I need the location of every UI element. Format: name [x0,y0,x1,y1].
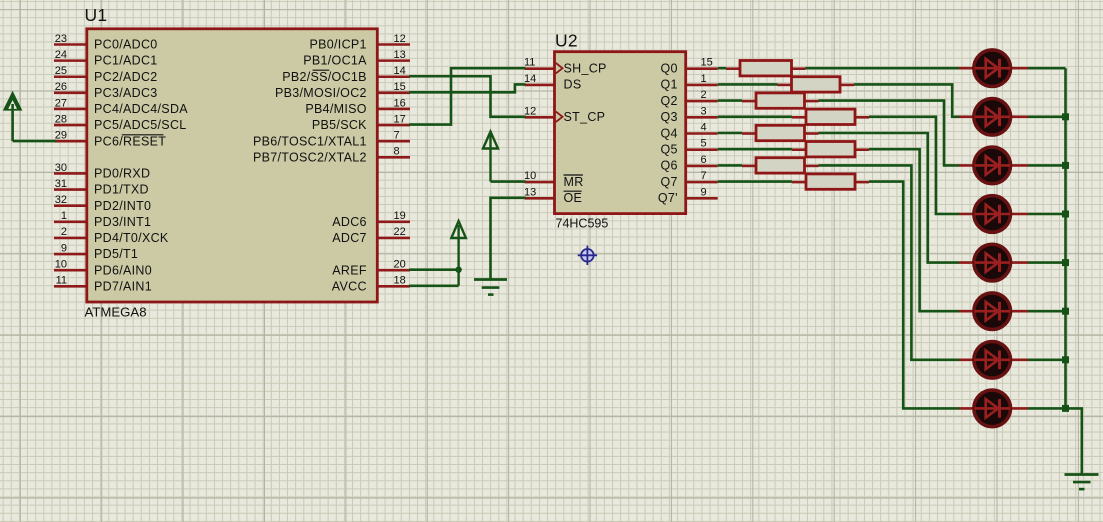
svg-text:19: 19 [394,210,406,222]
svg-text:6: 6 [701,154,707,166]
svg-text:7: 7 [394,130,400,142]
IC U2 74HC595 body [555,52,686,214]
resistor R3 [742,93,819,108]
wire U2 pin 13 OE to ground [491,198,526,279]
resistor R5 [742,125,819,140]
U1 pin 17 (PB5/SCK) [312,113,410,132]
wire LED D3 to cathode bus [1028,164,1066,167]
svg-text:18: 18 [394,275,406,287]
svg-text:Q6: Q6 [661,159,678,173]
U1 pin 19 (ADC6) [332,210,410,229]
svg-text:PC4/ADC4/SDA: PC4/ADC4/SDA [94,102,188,116]
resistor R1 [726,61,806,76]
svg-text:ATMEGA8: ATMEGA8 [85,305,147,320]
wire R5 to LED D5 [819,133,960,263]
U1 pin 18 (AVCC) [332,275,410,294]
svg-text:MR: MR [564,175,584,189]
U2 OE overline [564,190,582,192]
svg-text:U1: U1 [85,5,108,25]
U1 pin 11 (PD7/AIN1) [54,275,152,294]
U1 pin 26 (PC3/ADC3) [54,81,158,100]
svg-text:PB5/SCK: PB5/SCK [312,118,367,132]
U2 pin 2 (Q2) [661,89,718,108]
svg-text:15: 15 [701,57,713,69]
junction AREF/AVCC [455,266,461,272]
svg-text:2: 2 [701,89,707,101]
U1 pin 20 (AREF) [332,258,410,277]
svg-text:5: 5 [701,138,707,150]
wire U1 pin 18 AVCC to VCC [409,284,459,287]
svg-text:PC5/ADC5/SCL: PC5/ADC5/SCL [94,118,187,132]
svg-text:12: 12 [524,105,536,117]
svg-text:AVCC: AVCC [332,279,367,293]
LED D1 [959,50,1028,87]
wire R6 to LED D6 [869,149,959,311]
svg-text:Q4: Q4 [661,126,678,140]
U1 pin 29 (PC6/RESET) [54,130,166,149]
U2 pin 14 (DS) [524,73,581,92]
svg-text:PD6/AIN0: PD6/AIN0 [94,263,152,277]
svg-text:PD7/AIN1: PD7/AIN1 [94,279,152,293]
U2 pin 12 (ST_CP) [524,105,605,124]
svg-text:13: 13 [524,186,536,198]
junction bus LED D2 [1062,113,1069,120]
U1 RESET overline [122,134,164,136]
wire LED D8 to cathode bus [1028,407,1066,410]
wire LED D1 to cathode bus [1028,67,1066,70]
svg-text:9: 9 [61,242,67,254]
svg-text:11: 11 [56,275,67,287]
U2 SH_CP clock arrow [556,63,563,73]
U1 pin 7 (PB6/TOSC1/XTAL1) [253,130,410,149]
U1 pin 16 (PB4/MISO) [305,97,410,116]
wire LED D2 to cathode bus [1028,116,1066,119]
svg-text:20: 20 [394,258,406,270]
junction bus LED D7 [1062,356,1069,363]
U1 pin 1 (PD3/INT1) [54,210,151,229]
U1 SS overline [313,69,330,71]
U2 pin 3 (Q3) [661,105,718,124]
svg-text:PB3/MOSI/OC2: PB3/MOSI/OC2 [275,86,367,100]
junction bus LED D4 [1062,211,1069,218]
wire R4 to LED D4 [869,117,959,214]
wire U1 PB3/MOSI to U2 DS [409,84,526,92]
svg-text:16: 16 [394,97,406,109]
svg-text:Q7: Q7 [661,175,678,189]
ground symbol bottom right [1065,475,1099,490]
wire U2 Q2 to resistor R3 [718,99,742,102]
LED D6 [959,293,1028,330]
U2 ST_CP clock arrow [556,112,563,122]
U1 pin 9 (PD5/T1) [54,242,138,261]
U1 pin 10 (PD6/AIN0) [54,258,152,277]
svg-text:14: 14 [394,65,406,77]
junction bus LED D8 [1062,405,1069,412]
resistor R2 [778,77,855,92]
LED D8 [959,390,1028,427]
svg-text:PC0/ADC0: PC0/ADC0 [94,38,158,52]
U2 pin 11 (SH_CP) [524,57,607,76]
svg-text:ST_CP: ST_CP [564,110,606,124]
svg-text:Q2: Q2 [661,94,678,108]
svg-text:PB4/MISO: PB4/MISO [305,102,366,116]
U2 pin 6 (Q6) [661,154,718,173]
resistor R8 [792,174,869,189]
U1 pin 31 (PD1/TXD) [54,178,149,197]
svg-text:DS: DS [564,78,582,92]
U1 pin 30 (PD0/RXD) [54,162,150,181]
U2 pin 10 (MR) [524,170,584,189]
U2 pin 13 (OE) [524,186,582,205]
U1 pin 15 (PB3/MOSI/OC2) [275,81,410,100]
U1 pin 2 (PD4/T0/XCK) [54,226,169,245]
U2 pin 9 (Q7') [658,186,718,205]
wire LED D5 to cathode bus [1028,261,1066,264]
U1 pin 14 (PB2/SS/OC1B) [282,65,410,84]
svg-text:U2: U2 [555,31,578,51]
wire LED D6 to cathode bus [1028,310,1066,313]
wire U1 PB2/SS to U2 ST_CP [409,76,526,117]
IC U1 ATMEGA8 body [87,29,378,302]
svg-text:PB0/ICP1: PB0/ICP1 [310,38,367,52]
svg-text:1: 1 [701,73,707,85]
svg-text:74HC595: 74HC595 [556,217,609,231]
ground symbol below U2 [474,280,507,295]
resistor R7 [742,158,819,173]
svg-text:ADC7: ADC7 [332,231,367,245]
svg-text:Q3: Q3 [661,110,678,124]
svg-text:4: 4 [701,122,707,134]
wire U1 pin 20 AREF to VCC [409,268,459,271]
junction bus LED D3 [1062,162,1069,169]
svg-text:PC6/RESET: PC6/RESET [94,134,166,148]
wire bus to ground bottom right [1066,408,1082,473]
LED D7 [959,342,1028,379]
U1 pin 32 (PD2/INT0) [54,194,151,213]
svg-text:SH_CP: SH_CP [564,62,607,76]
wire U2 Q0 to resistor R1 [718,67,726,70]
resistor R4 [792,109,869,124]
svg-text:Q5: Q5 [661,143,678,157]
svg-text:26: 26 [55,81,67,93]
svg-text:Q7': Q7' [658,191,678,205]
svg-text:17: 17 [394,113,406,125]
svg-text:7: 7 [701,170,707,182]
U1 pin 24 (PC1/ADC1) [54,49,158,68]
svg-text:15: 15 [394,81,406,93]
wire U2 Q3 to resistor R4 [718,116,792,119]
junction bus LED D6 [1062,308,1069,315]
svg-text:1: 1 [61,210,67,222]
wire R8 to LED D8 [869,182,959,409]
svg-text:PB7/TOSC2/XTAL2: PB7/TOSC2/XTAL2 [253,150,367,164]
U1 pin 13 (PB1/OC1A) [303,49,410,68]
U1 pin 12 (PB0/ICP1) [310,33,410,52]
U1 pin 27 (PC4/ADC4/SDA) [54,97,188,116]
svg-text:12: 12 [394,33,406,45]
svg-text:27: 27 [55,97,67,109]
U1 pin 28 (PC5/ADC5/SCL) [54,113,187,132]
svg-text:25: 25 [55,65,67,77]
svg-text:11: 11 [524,57,535,69]
svg-text:PD4/T0/XCK: PD4/T0/XCK [94,231,169,245]
U2 pin 15 (Q0) [661,57,718,76]
svg-text:22: 22 [394,226,406,238]
U2 pin 5 (Q5) [661,138,718,157]
wire U2 Q4 to resistor R5 [718,132,742,135]
wire U2 Q1 to resistor R2 [718,83,778,86]
wire U2 Q7 to resistor R8 [718,180,792,183]
svg-text:31: 31 [55,178,67,190]
svg-text:13: 13 [394,49,406,61]
svg-text:ADC6: ADC6 [332,215,367,229]
wire VCC to U1 pin 29 PC6/RESET [13,140,56,143]
svg-text:AREF: AREF [332,263,367,277]
resistor R6 [792,142,869,157]
svg-text:32: 32 [55,194,67,206]
U2 pin 7 (Q7) [661,170,718,189]
U1 pin 8 (PB7/TOSC2/XTAL2) [253,146,410,165]
U2 pin 4 (Q4) [661,122,718,141]
wire R3 to LED D3 [819,101,960,166]
U1 pin 25 (PC2/ADC2) [54,65,158,84]
wire cathode bus vertical [1064,68,1067,408]
svg-text:9: 9 [701,186,707,198]
svg-text:3: 3 [701,105,707,117]
LED D4 [959,196,1028,233]
wire R7 to LED D7 [819,165,960,359]
svg-text:PB2/SS/OC1B: PB2/SS/OC1B [282,70,367,84]
svg-text:23: 23 [55,33,67,45]
wire LED D4 to cathode bus [1028,213,1066,216]
power symbol VCC at U1 AREF/AVCC [451,221,466,286]
svg-text:10: 10 [55,258,67,270]
U1 pin 22 (ADC7) [332,226,410,245]
origin marker [578,246,597,265]
svg-text:2: 2 [61,226,67,238]
svg-text:10: 10 [524,170,536,182]
svg-text:PD3/INT1: PD3/INT1 [94,215,151,229]
svg-text:PD0/RXD: PD0/RXD [94,167,150,181]
svg-text:24: 24 [55,49,67,61]
svg-text:8: 8 [394,146,400,158]
junction bus LED D5 [1062,259,1069,266]
svg-text:PD1/TXD: PD1/TXD [94,183,149,197]
svg-text:PD2/INT0: PD2/INT0 [94,199,151,213]
U2 pin 1 (Q1) [661,73,718,92]
wire U2 Q5 to resistor R6 [718,148,792,151]
svg-text:OE: OE [564,191,583,205]
wire R2 to LED D2 [854,84,959,116]
LED D2 [959,99,1028,136]
U1 pin 23 (PC0/ADC0) [54,33,158,52]
svg-text:28: 28 [55,113,67,125]
LED D5 [959,244,1028,281]
svg-text:PC2/ADC2: PC2/ADC2 [94,70,158,84]
svg-text:29: 29 [55,130,67,142]
wire U2 Q6 to resistor R7 [718,164,742,167]
power symbol VCC at U2 MR [483,132,498,182]
svg-text:30: 30 [55,162,67,174]
svg-text:PC1/ADC1: PC1/ADC1 [94,54,158,68]
svg-text:PB6/TOSC1/XTAL1: PB6/TOSC1/XTAL1 [253,134,367,148]
wire VCC to U2 pin 10 MR [491,180,526,183]
svg-text:PB1/OC1A: PB1/OC1A [303,54,367,68]
power symbol VCC at U1 RESET [4,92,22,141]
svg-text:Q1: Q1 [661,78,678,92]
wire U1 PB5/SCK to U2 SH_CP [409,68,526,124]
svg-text:Q0: Q0 [661,62,678,76]
svg-text:14: 14 [524,73,536,85]
svg-text:PD5/T1: PD5/T1 [94,247,138,261]
U2 MR overline [564,174,583,176]
LED D3 [959,147,1028,184]
wire LED D7 to cathode bus [1028,358,1066,361]
svg-text:PC3/ADC3: PC3/ADC3 [94,86,158,100]
wire R1 to LED D1 [806,67,960,70]
